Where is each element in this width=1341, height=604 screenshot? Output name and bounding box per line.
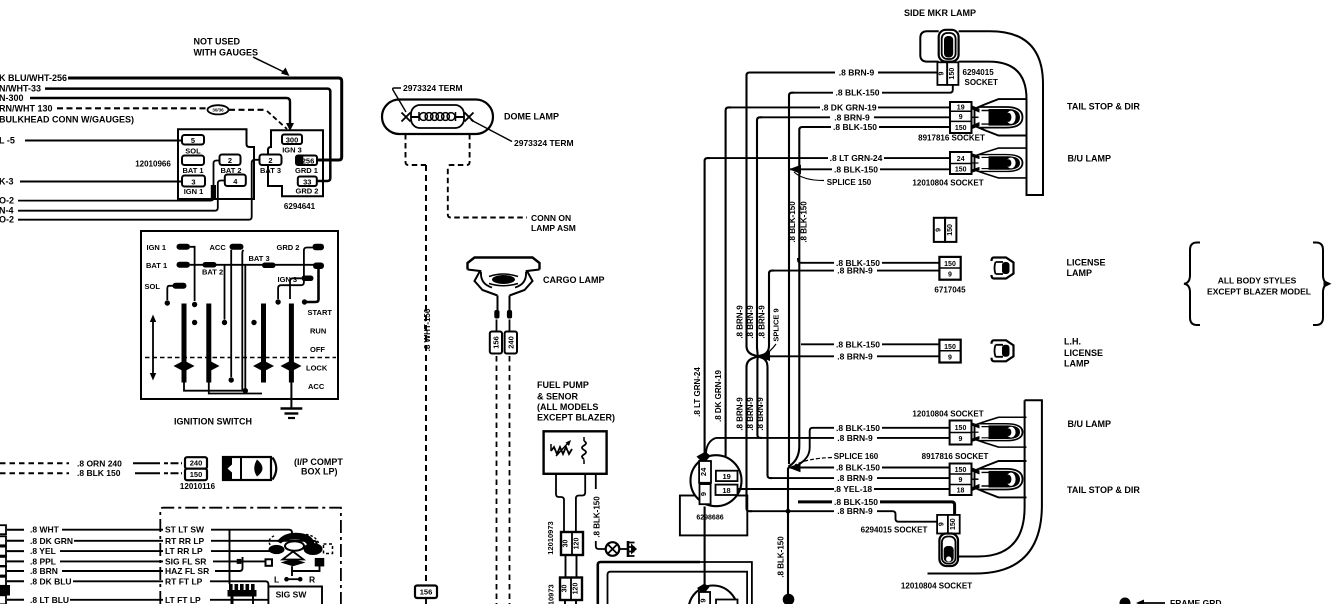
wire 256 row — [68, 78, 342, 160]
svg-text:O-2: O-2 — [0, 196, 14, 206]
side marker terminal 150 rotated — [947, 62, 958, 85]
lower terminal 9 rotated — [699, 592, 710, 604]
svg-text:3: 3 — [191, 178, 195, 187]
svg-text:LT RR LP: LT RR LP — [165, 546, 203, 556]
svg-text:2: 2 — [228, 156, 232, 165]
svg-text:R: R — [309, 575, 315, 585]
lower tail socket housing and bulb — [972, 461, 1027, 497]
side marker socket tube — [939, 30, 959, 62]
svg-text:RT FT LP: RT FT LP — [165, 576, 203, 586]
terminal box 33 / GRD 2 — [298, 177, 317, 187]
long dashed wire .8 WHT-156 — [425, 165, 427, 583]
svg-text:FUEL PUMP: FUEL PUMP — [537, 380, 589, 390]
svg-text:8917816 SOCKET: 8917816 SOCKET — [922, 452, 989, 461]
tail socket housing and bulb — [972, 99, 1027, 135]
svg-text:SPLICE 150: SPLICE 150 — [827, 178, 872, 187]
svg-text:9: 9 — [698, 598, 707, 602]
wire 300 row — [30, 98, 290, 126]
terminal 24 rotated — [699, 461, 711, 483]
splice 9 rotated label and leader — [764, 344, 776, 356]
svg-text:BAT 3: BAT 3 — [249, 254, 270, 263]
connector box 30/120 upper — [561, 532, 583, 555]
BU socket housing and bulb — [972, 148, 1027, 178]
svg-text:156: 156 — [492, 336, 501, 349]
wire GRD2 elbow — [278, 248, 312, 300]
svg-text:120: 120 — [573, 583, 580, 595]
inline splice oval on 130 wire — [208, 105, 229, 114]
svg-text:.8 DK GRN-19: .8 DK GRN-19 — [714, 369, 723, 422]
terminal box 300 / IGN 3 — [282, 135, 302, 145]
svg-text:.8 DK GRN: .8 DK GRN — [30, 536, 73, 546]
svg-text:5: 5 — [191, 136, 195, 145]
connector box behind circle 6298686 — [680, 496, 747, 536]
terminal box 156 rotated — [490, 332, 502, 354]
svg-text:.8 BLK-150: .8 BLK-150 — [777, 536, 786, 578]
wire .8 LT BLU / LT FT LP — [7, 599, 24, 601]
splice 150 label leader — [794, 172, 824, 181]
svg-text:RUN: RUN — [310, 327, 326, 336]
svg-text:150: 150 — [947, 224, 954, 236]
dashed diagonal to 300 box — [267, 111, 287, 129]
svg-text:2973324 TERM: 2973324 TERM — [403, 83, 463, 93]
svg-text:9: 9 — [959, 477, 963, 484]
wire .8 BRN / HAZ FL SR — [7, 570, 24, 572]
wire .8 LT GRN-24 — [710, 157, 950, 159]
wafer contact arrows — [174, 362, 302, 371]
svg-text:.8 BRN-9: .8 BRN-9 — [837, 506, 873, 516]
svg-text:BOX LP): BOX LP) — [301, 467, 338, 477]
svg-text:9: 9 — [699, 492, 708, 496]
license connector 6717045 — [939, 257, 960, 280]
connector comb bottom — [228, 590, 257, 597]
wire right verticals — [242, 250, 243, 391]
bottom socket terminal 150 rotated — [948, 515, 960, 534]
svg-text:12010804 SOCKET: 12010804 SOCKET — [901, 582, 972, 591]
wire .8 BLK-150 to tail — [804, 126, 950, 128]
svg-text:6298686: 6298686 — [696, 515, 723, 522]
wedge entry lower circle — [697, 584, 710, 595]
svg-text:.8 BLK-150: .8 BLK-150 — [836, 423, 880, 433]
floating connector 9/150 — [934, 218, 945, 242]
dashed drops from cargo connectors — [496, 356, 498, 604]
svg-text:9: 9 — [939, 72, 946, 76]
svg-text:.8 BRN-9: .8 BRN-9 — [736, 305, 745, 339]
wire .8 DK GRN-19 — [731, 106, 950, 108]
wire .8 BRN-9 LH license — [758, 355, 941, 357]
terminal box BAT 1 — [182, 156, 204, 166]
LH license lamp bulb — [992, 340, 1014, 361]
arrowhead into 300 box — [286, 123, 294, 131]
wire .8 BLK-150 LH license — [801, 343, 939, 345]
svg-text:GRD 2: GRD 2 — [277, 243, 300, 252]
junction dots — [165, 300, 170, 305]
lower BU socket housing and bulb — [972, 417, 1027, 447]
terminal 18 — [716, 485, 738, 495]
svg-text:LT FT LP: LT FT LP — [165, 595, 201, 604]
svg-text:.8 BRN-9: .8 BRN-9 — [746, 305, 755, 339]
dashed drop left from dome — [406, 134, 427, 165]
svg-text:150: 150 — [944, 344, 956, 351]
svg-text:18: 18 — [722, 486, 730, 495]
svg-text:K BLU/WHT-256: K BLU/WHT-256 — [0, 73, 67, 83]
brace left — [1184, 243, 1200, 326]
terminal 19 — [716, 471, 738, 481]
wire .8 BRN-9 license — [774, 270, 941, 272]
svg-text:START: START — [308, 308, 333, 317]
svg-text:.8 BLK-150: .8 BLK-150 — [834, 164, 878, 174]
wire .8 BRN-9 lower BU — [716, 437, 950, 439]
svg-text:12010973: 12010973 — [547, 584, 556, 604]
svg-text:LAMP: LAMP — [1064, 359, 1090, 369]
svg-text:.8 ORN 240: .8 ORN 240 — [77, 458, 122, 468]
svg-text:RT RR LP: RT RR LP — [165, 536, 205, 546]
wire 33 row — [45, 89, 330, 181]
svg-text:30: 30 — [563, 540, 570, 548]
svg-text:.8 DK GRN-19: .8 DK GRN-19 — [821, 102, 877, 112]
svg-text:9: 9 — [948, 272, 952, 279]
svg-text:NOT USED: NOT USED — [194, 37, 241, 47]
svg-text:24: 24 — [957, 156, 965, 163]
svg-text:LOCK: LOCK — [306, 364, 328, 373]
svg-text:ST LT SW: ST LT SW — [165, 525, 205, 535]
terminal box 2 / BAT 3 — [260, 155, 282, 166]
svg-text:300: 300 — [286, 135, 299, 144]
wire BAT2 branch — [224, 265, 226, 320]
svg-text:.8 BLK-150: .8 BLK-150 — [833, 122, 877, 132]
bulkhead stub boxes left edge — [0, 525, 6, 604]
svg-text:.8 BLK-150: .8 BLK-150 — [836, 88, 880, 98]
svg-text:FRAME GRD: FRAME GRD — [1170, 598, 1221, 604]
svg-text:.8 BRN-9: .8 BRN-9 — [837, 351, 873, 361]
svg-text:B/U LAMP: B/U LAMP — [1068, 419, 1112, 429]
connector box 30/120 lower — [560, 578, 582, 601]
chassis ground comb — [627, 541, 630, 557]
svg-text:.8 BRN: .8 BRN — [30, 566, 58, 576]
svg-text:L.H.: L.H. — [1064, 337, 1081, 347]
svg-text:12010804 SOCKET: 12010804 SOCKET — [912, 179, 983, 188]
svg-text:CONN ON: CONN ON — [531, 213, 571, 223]
svg-text:2: 2 — [268, 156, 272, 165]
wafer bar 3 — [261, 304, 266, 383]
tail socket connector 8917816 — [950, 102, 972, 133]
svg-text:RN/WHT 130: RN/WHT 130 — [0, 103, 53, 113]
wire .8 YEL / LT RR LP — [7, 550, 24, 552]
riser .8 BLK-150 B — [789, 127, 805, 467]
wire .8 DK GRN / RT RR LP — [7, 540, 24, 542]
svg-text:BULKHEAD CONN W/GAUGES): BULKHEAD CONN W/GAUGES) — [0, 115, 134, 125]
svg-text:.8 WHT: .8 WHT — [30, 525, 60, 535]
wire .8 YEL-18 — [738, 488, 950, 490]
sig sw internal wires — [291, 566, 293, 576]
sig sw mechanism blobs — [277, 533, 315, 546]
harness band left lobe — [920, 31, 938, 61]
leads between 30/120 boxes — [566, 555, 577, 578]
riser .8 BLK-150 A — [789, 93, 794, 464]
riser .8 BLK-150 to frame ground — [787, 468, 789, 596]
svg-text:12010973: 12010973 — [546, 521, 555, 554]
svg-text:SPLICE 160: SPLICE 160 — [834, 452, 879, 461]
svg-text:8917816 SOCKET: 8917816 SOCKET — [918, 134, 985, 143]
dashed drop right from dome — [448, 134, 527, 218]
svg-text:150: 150 — [955, 467, 967, 474]
wire .8 DK BLU / RT FT LP — [7, 580, 24, 582]
svg-text:.8 DK BLU: .8 DK BLU — [30, 576, 72, 586]
dome lamp outer stadium — [382, 100, 493, 135]
terminal box 4 — [225, 175, 246, 187]
dash-dot harness box around sig sw — [160, 508, 341, 604]
riser .8 BRN-9 from license — [758, 271, 774, 357]
riser fans below splice 9 — [747, 356, 759, 511]
cargo lamp housing — [468, 258, 540, 270]
key position dashed line — [145, 357, 336, 359]
bottom socket tube — [939, 534, 958, 567]
dot junction on BRN row — [786, 509, 791, 514]
svg-text:SOL: SOL — [185, 147, 201, 156]
svg-text:150: 150 — [950, 518, 957, 530]
svg-text:IGN 1: IGN 1 — [184, 187, 204, 196]
svg-text:SIDE MKR LAMP: SIDE MKR LAMP — [904, 8, 976, 18]
license lamp bulb — [992, 258, 1014, 279]
svg-text:BAT 2: BAT 2 — [202, 268, 223, 277]
svg-text:LAMP ASM: LAMP ASM — [531, 223, 576, 233]
svg-text:BAT 1: BAT 1 — [182, 166, 203, 175]
svg-text:SOL: SOL — [145, 282, 161, 291]
svg-text:BAT 3: BAT 3 — [260, 166, 281, 175]
riser below circle — [704, 507, 706, 604]
svg-text:ACC: ACC — [308, 382, 325, 391]
wafer bar 1 — [182, 304, 187, 383]
svg-text:6294015: 6294015 — [963, 68, 995, 77]
svg-text:19: 19 — [957, 104, 965, 111]
brace right with arrow — [1313, 243, 1329, 326]
wire ACC down — [230, 250, 232, 377]
svg-text:33: 33 — [303, 177, 311, 186]
lower BU socket connector — [950, 421, 972, 445]
sig sw label box — [268, 587, 322, 604]
riser .8 DK GRN-19 — [726, 107, 731, 470]
svg-text:WITH GAUGES: WITH GAUGES — [194, 48, 259, 58]
svg-text:240: 240 — [190, 459, 203, 468]
svg-text:150: 150 — [944, 261, 956, 268]
wedge wire entry at circle top — [697, 452, 711, 465]
svg-text:.8 YEL: .8 YEL — [30, 546, 56, 556]
lower tail socket connector — [950, 464, 972, 496]
svg-text:150: 150 — [190, 470, 203, 479]
dome lamp inner housing — [411, 105, 464, 128]
splice 160 arrowhead — [788, 463, 801, 472]
ground wire from wafer 4 — [290, 383, 292, 408]
svg-text:9: 9 — [936, 228, 943, 232]
cargo lamp legs — [498, 296, 510, 313]
svg-text:LICENSE: LICENSE — [1064, 348, 1103, 358]
wire .8 BLK-150 lower BU — [800, 428, 950, 464]
wire IGN1 to wafer — [190, 247, 195, 301]
wire .8 BRN-9 to tail — [762, 116, 950, 118]
svg-text:TAIL STOP & DIR: TAIL STOP & DIR — [1067, 485, 1140, 495]
svg-text:12010116: 12010116 — [180, 482, 216, 491]
svg-text:LICENSE: LICENSE — [1067, 258, 1106, 268]
svg-text:9: 9 — [959, 114, 963, 121]
wire SOL elbow — [167, 286, 174, 300]
svg-text:24: 24 — [699, 467, 708, 476]
svg-text:12010966: 12010966 — [135, 160, 171, 169]
svg-text:30: 30 — [562, 585, 569, 593]
terminal box 156 — [415, 586, 437, 599]
ground connector circle-X — [606, 542, 620, 556]
wire .8 BLK-150 to side marker — [794, 86, 953, 93]
svg-text:OFF: OFF — [310, 345, 325, 354]
ground symbol — [281, 407, 303, 410]
svg-text:.8 BRN-9: .8 BRN-9 — [837, 266, 873, 276]
svg-text:.8 LT GRN-24: .8 LT GRN-24 — [693, 367, 702, 417]
splice 9 arrowhead — [757, 352, 770, 362]
svg-text:K-3: K-3 — [0, 177, 14, 187]
svg-text:.8 BRN-9: .8 BRN-9 — [839, 68, 875, 78]
svg-text:DOME LAMP: DOME LAMP — [504, 112, 559, 122]
svg-text:.8 BRN-9: .8 BRN-9 — [756, 397, 765, 431]
wire .8 PPL / SIG FL SR — [7, 560, 24, 562]
svg-text:.8 BLK-150: .8 BLK-150 — [788, 201, 797, 243]
terminal box 5 / SOL — [182, 135, 204, 145]
svg-text:GRD 1: GRD 1 — [295, 166, 318, 175]
wire .8 WHT / ST LT SW — [7, 529, 24, 531]
bottom socket terminal 9 rotated — [937, 515, 948, 534]
svg-text:CARGO LAMP: CARGO LAMP — [543, 275, 605, 285]
svg-text:EXCEPT BLAZER): EXCEPT BLAZER) — [537, 413, 615, 423]
svg-text:HAZ FL SR: HAZ FL SR — [165, 566, 209, 576]
harness band upper — [959, 31, 1043, 195]
svg-text:LAMP: LAMP — [1067, 268, 1093, 278]
svg-text:120: 120 — [574, 538, 581, 550]
riser .8 LT GRN-24 — [705, 158, 710, 455]
svg-text:.8 BLK 150: .8 BLK 150 — [77, 468, 121, 478]
wire .8 BLK-150 thick to bottom socket — [798, 502, 955, 514]
svg-text:.8 BLK-150: .8 BLK-150 — [800, 201, 809, 243]
riser .8 BRN-9 to tail socket — [757, 117, 762, 356]
svg-text:19: 19 — [723, 472, 731, 481]
wire .8 BLK 150 dashed — [0, 472, 69, 474]
svg-text:.8 BRN-9: .8 BRN-9 — [746, 397, 755, 431]
terminal 9 rotated — [700, 484, 711, 504]
wire .8 ORN 240 dashed — [0, 462, 69, 464]
wire .8 BLK-150 to BU — [789, 168, 950, 170]
wire .8 BLK-150 license — [798, 258, 939, 263]
wire .8 BLK-150 lower tail — [788, 467, 950, 469]
svg-text:6294015 SOCKET: 6294015 SOCKET — [861, 526, 928, 535]
wire 130 dashed row — [57, 107, 206, 109]
svg-text:(I/P COMPT: (I/P COMPT — [294, 457, 343, 467]
BU socket connector 12010804 — [950, 152, 972, 174]
wire .8 BRN-9 lower tail — [772, 477, 950, 479]
svg-text:.8 BRN-9: .8 BRN-9 — [758, 305, 767, 339]
svg-text:IGN 3: IGN 3 — [278, 275, 298, 284]
svg-text:12010804 SOCKET: 12010804 SOCKET — [912, 410, 983, 419]
wafer bar 4 — [289, 304, 294, 383]
svg-text:B/U LAMP: B/U LAMP — [1068, 154, 1112, 164]
wire .8 BRN-9 to bottom socket — [752, 511, 937, 522]
svg-text:TAIL STOP & DIR: TAIL STOP & DIR — [1067, 101, 1140, 111]
side marker terminal 9 rotated — [937, 62, 947, 85]
svg-text:.8 BLK-150: .8 BLK-150 — [836, 339, 880, 349]
svg-text:L -5: L -5 — [0, 136, 15, 146]
ignition switch box — [141, 231, 338, 399]
svg-text:9: 9 — [948, 354, 952, 361]
splice 150 arrowhead — [789, 165, 801, 174]
wire BAT1 bus — [190, 264, 319, 266]
svg-text:ALL BODY STYLES: ALL BODY STYLES — [1218, 276, 1297, 286]
svg-text:.8 LT GRN-24: .8 LT GRN-24 — [830, 153, 883, 163]
frame ground legend — [1120, 598, 1131, 604]
svg-text:.8 BLK-150: .8 BLK-150 — [593, 496, 602, 538]
svg-text:9: 9 — [939, 522, 946, 526]
svg-text:2973324 TERM: 2973324 TERM — [514, 138, 574, 148]
fuel pump coil — [582, 441, 586, 459]
svg-text:IGN 1: IGN 1 — [147, 243, 167, 252]
svg-text:9: 9 — [959, 436, 963, 443]
connector box 150 — [185, 469, 207, 481]
dome lamp terminal left — [402, 113, 420, 122]
cargo lamp bulb — [492, 275, 515, 284]
wire IGN3 elbow — [290, 278, 302, 299]
stubs to connector boxes — [497, 320, 510, 332]
terminal box 2 / BAT 2 — [220, 155, 241, 166]
riser .8 BRN-9 to side marker — [747, 73, 758, 357]
lower body rect inner — [608, 572, 748, 604]
terminal BAT 2 — [203, 262, 217, 268]
rotation double arrow — [152, 320, 154, 375]
svg-text:BAT 1: BAT 1 — [146, 261, 167, 270]
svg-text:.8 YEL-18: .8 YEL-18 — [834, 484, 872, 494]
fuel pump box — [544, 431, 607, 474]
dome lamp filament coil — [419, 112, 456, 121]
splice 160 label leader — [795, 458, 832, 466]
svg-text:L: L — [274, 575, 279, 585]
svg-text:SPLICE 9: SPLICE 9 — [772, 308, 781, 341]
svg-text:BAT 2: BAT 2 — [220, 166, 241, 175]
fuel sender resistor — [551, 447, 572, 454]
svg-text:.8 PPL: .8 PPL — [30, 556, 56, 566]
wire curve from circle top to BRN row — [706, 438, 717, 455]
svg-text:N-300: N-300 — [0, 93, 24, 103]
terminal box 256 / GRD 1 — [296, 156, 317, 166]
fuel pump leads — [556, 474, 564, 532]
lower body rect outer — [598, 562, 700, 604]
connector box 240 — [185, 457, 207, 469]
svg-text:SIG SW: SIG SW — [276, 590, 308, 600]
LH license connector — [939, 340, 960, 363]
svg-text:IGN 3: IGN 3 — [282, 145, 302, 154]
svg-text:150: 150 — [955, 425, 967, 432]
svg-text:6717045: 6717045 — [934, 286, 966, 295]
svg-text:.8 BRN-9: .8 BRN-9 — [736, 397, 745, 431]
svg-text:SOCKET: SOCKET — [965, 78, 998, 87]
svg-text:30/36: 30/36 — [212, 108, 224, 113]
svg-text:18: 18 — [957, 488, 965, 495]
lower terminal 19 — [716, 600, 738, 604]
svg-text:IGNITION SWITCH: IGNITION SWITCH — [174, 417, 252, 427]
svg-text:256: 256 — [302, 156, 315, 165]
bottom link wire — [184, 383, 245, 391]
svg-text:O-2: O-2 — [0, 215, 14, 225]
svg-text:240: 240 — [507, 336, 516, 349]
svg-text:150: 150 — [955, 167, 967, 174]
terminal box 240 rotated — [505, 332, 517, 354]
terminal box 3 / IGN 1 — [182, 176, 205, 187]
svg-text:150: 150 — [949, 68, 956, 80]
fuel pump ground lead — [595, 474, 597, 489]
svg-text:GRD 2: GRD 2 — [296, 187, 319, 196]
svg-text:.8 LT BLU: .8 LT BLU — [30, 595, 69, 604]
